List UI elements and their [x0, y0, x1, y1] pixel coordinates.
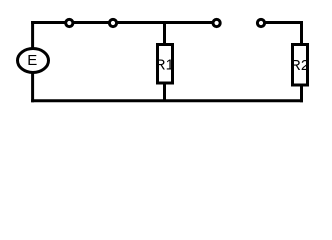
svg-text:E: E [27, 52, 37, 69]
svg-text:R1: R1 [155, 56, 174, 73]
svg-text:R2: R2 [290, 57, 309, 74]
